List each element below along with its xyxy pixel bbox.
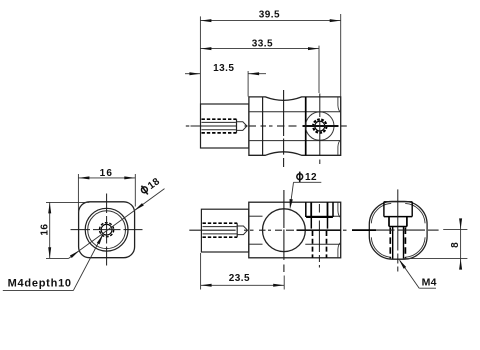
label phi18 with leader bbox=[68, 189, 164, 259]
front view: body outline bbox=[249, 202, 341, 258]
top view: threaded boss outline bbox=[201, 104, 249, 148]
left view: square outline with rounded corners bbox=[79, 202, 135, 258]
svg-text:16: 16 bbox=[40, 224, 51, 236]
left view: boss circle dia 12 bbox=[85, 208, 128, 251]
right view: horizontal center line bbox=[352, 229, 371, 231]
top view: cross-hole edge lines bbox=[262, 97, 264, 155]
front view: screw center line bbox=[318, 204, 320, 213]
svg-text:39.5: 39.5 bbox=[259, 9, 280, 20]
left view: M4 minor circle bbox=[101, 224, 112, 235]
top view: counterbore vertical center line bbox=[319, 94, 321, 118]
right view: end chamfer corner arcs bbox=[405, 203, 425, 223]
extension line right face bbox=[340, 14, 342, 97]
top view: body outline with waist arcs bbox=[249, 97, 341, 155]
top view: screw thread dashed circle bbox=[313, 119, 326, 132]
dimension 23.5 bbox=[200, 253, 202, 290]
extension line hole center bbox=[318, 46, 320, 93]
top view: right end chamfer arcs bbox=[338, 97, 341, 112]
svg-text:23.5: 23.5 bbox=[229, 273, 250, 284]
front view: thread end line bbox=[236, 223, 238, 237]
front view: flat boundary lines bbox=[249, 215, 263, 217]
right view: slot top edge bbox=[384, 201, 412, 203]
right view: screw shank walls bbox=[392, 227, 394, 259]
svg-text:8: 8 bbox=[450, 242, 461, 248]
front view: slot bottom line bbox=[306, 216, 333, 218]
top view: screw minor circle bbox=[315, 121, 325, 131]
left view: boss chamfer circle bbox=[88, 211, 126, 249]
right view: slot bottom line bbox=[384, 216, 412, 218]
left view: M4 thread dashed circle bbox=[100, 223, 114, 237]
right view: screw vertical center line bbox=[397, 189, 399, 250]
front view: counterbore walls bbox=[310, 217, 312, 229]
svg-text:33.5: 33.5 bbox=[252, 38, 273, 49]
extension line boss joint bbox=[247, 71, 249, 97]
dimension 33.5 bbox=[200, 48, 319, 50]
front view: boss outline bbox=[201, 209, 248, 252]
dimension 39.5 bbox=[200, 20, 340, 22]
front view: hidden screw thread dashed bbox=[312, 231, 314, 258]
front view: horizontal center line bbox=[189, 229, 235, 231]
top view: M4 thread minor lines bbox=[202, 121, 236, 123]
front view: M4 thread minor lines bbox=[203, 226, 237, 228]
top view: horizontal center line bbox=[186, 125, 190, 127]
right view: round outline with small flats bbox=[369, 201, 427, 259]
right view: hidden screw thread dashed bbox=[389, 228, 391, 259]
top view: M4 thread major dashed lines bbox=[202, 118, 237, 120]
front view: slot walls bbox=[305, 202, 307, 217]
svg-text:M4: M4 bbox=[422, 277, 437, 289]
front view: right end chamfer arcs bbox=[338, 203, 341, 218]
right view: screw head box bbox=[388, 217, 390, 227]
dimension 13.5 bbox=[185, 73, 200, 75]
top view: counterbore circle bbox=[306, 112, 334, 140]
label phi12 with leader bbox=[297, 172, 317, 184]
extension line left face bbox=[199, 16, 201, 103]
front view: cross hole circle bbox=[263, 209, 306, 252]
dimension 16 horizontal bbox=[77, 174, 79, 212]
top view: thread end line bbox=[236, 119, 238, 133]
svg-text:12: 12 bbox=[305, 172, 317, 183]
left view: horizontal center line bbox=[71, 229, 91, 231]
front view: screw head walls bbox=[310, 202, 312, 217]
top view: cross-hole vertical center line bbox=[283, 90, 285, 136]
front view: cross-hole vertical center line bbox=[283, 190, 285, 228]
right view: slot walls bbox=[383, 202, 385, 217]
dimension 16 vertical bbox=[46, 201, 89, 203]
dimension 8 bbox=[443, 228, 467, 230]
top view: drill hole and cone point bbox=[237, 122, 247, 131]
front view: M4 thread major dashed lines bbox=[203, 222, 238, 224]
svg-text:13.5: 13.5 bbox=[213, 63, 234, 74]
svg-text:M4depth10: M4depth10 bbox=[8, 277, 72, 289]
top view: flat boundary lines bbox=[249, 111, 341, 113]
left view: vertical center line bbox=[106, 194, 108, 214]
front view: drill hole and cone point bbox=[237, 226, 247, 235]
svg-text:16: 16 bbox=[100, 168, 114, 179]
